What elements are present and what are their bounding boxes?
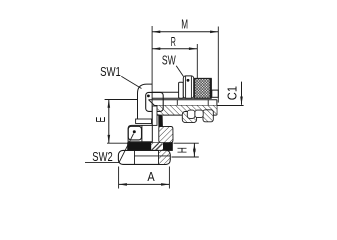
svg-text:C1: C1 xyxy=(224,86,239,100)
svg-text:SW2: SW2 xyxy=(92,149,112,164)
svg-text:R: R xyxy=(171,34,176,49)
svg-text:M: M xyxy=(181,16,188,31)
svg-text:H: H xyxy=(175,147,190,153)
svg-text:SW1: SW1 xyxy=(100,64,121,79)
svg-text:SW: SW xyxy=(162,53,177,68)
svg-text:A: A xyxy=(147,169,155,184)
svg-text:E: E xyxy=(93,117,108,123)
